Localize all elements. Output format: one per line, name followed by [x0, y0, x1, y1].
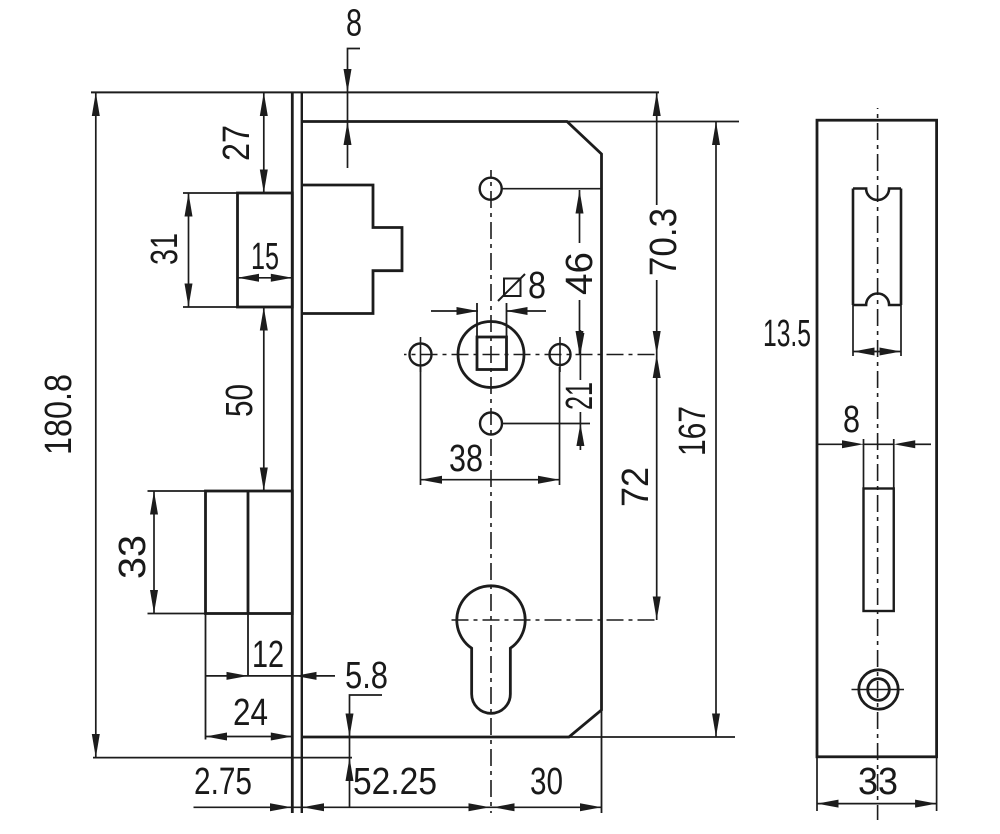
dim 50 line	[263, 307, 265, 491]
spindle hub circle	[458, 322, 524, 388]
dim 24 line	[206, 736, 293, 738]
31 top arrow	[185, 193, 193, 217]
dim 21 leaders	[579, 330, 581, 380]
dim 27 line	[263, 92, 265, 193]
24 left arrow	[206, 733, 228, 741]
svg-text:15: 15	[251, 236, 279, 278]
deadbolt left edge extension for 24 dim	[205, 614, 207, 740]
svg-text:5.8: 5.8	[345, 655, 388, 697]
2.75 right-pointing arrow	[270, 803, 292, 811]
latch cutout top edge with notch	[853, 189, 901, 201]
spindle square hole 8mm	[477, 337, 507, 370]
svg-text:31: 31	[144, 233, 186, 265]
dim 180.8 line	[95, 92, 97, 757]
70.3 top arrow	[653, 92, 661, 116]
left hole vertical tick	[420, 337, 422, 372]
33 extension lines	[816, 757, 818, 811]
lock body outline	[302, 122, 602, 738]
dim 8 leaders	[818, 443, 843, 445]
deadbolt internal line extension for 12 dim	[247, 614, 249, 677]
svg-text:52.25: 52.25	[353, 761, 437, 803]
dia8 square dim leaders	[431, 310, 478, 312]
30 left arrow at spindle axis	[493, 803, 515, 811]
right screw hole	[550, 344, 571, 365]
72 top arrow	[653, 355, 661, 379]
svg-text:21: 21	[559, 382, 601, 410]
top screw hole	[480, 178, 502, 200]
dim 167 line	[715, 122, 717, 738]
body right edge extension down to bottom dims	[601, 710, 603, 813]
167 top arrow	[712, 122, 720, 146]
deadbolt slot	[864, 489, 894, 612]
38 left arrow	[421, 476, 443, 484]
27 bottom arrow	[260, 170, 268, 194]
dim 33 line	[153, 491, 155, 614]
bottom dimension line 2.75 / 52.25 / 30	[194, 806, 602, 808]
faceplate front line (left, x=292.3)	[291, 92, 294, 813]
24 right arrow	[271, 733, 293, 741]
latch cutout bottom edge with bump	[853, 294, 901, 306]
8 top down arrow	[344, 69, 352, 92]
5.8 up arrow	[346, 758, 354, 781]
deadbolt top extension line for 33 dim	[148, 490, 206, 492]
svg-text:180.8: 180.8	[38, 374, 80, 455]
dim 70.3 line	[656, 92, 658, 205]
square symbol with slash for square 8	[498, 274, 525, 301]
dia8 left-pointing arrow	[506, 307, 528, 315]
13.5 dim line	[853, 351, 901, 353]
bottom screw hole	[480, 413, 502, 435]
15 right arrow	[271, 274, 293, 282]
screw hole horizontal center line	[852, 689, 905, 691]
167 bottom arrow	[712, 714, 720, 738]
8 right-pointing arrow	[842, 440, 864, 448]
svg-text:12: 12	[252, 634, 284, 676]
svg-text:50: 50	[219, 384, 261, 417]
21 down arrow	[576, 333, 584, 355]
deadbolt internal line	[247, 491, 250, 614]
svg-text:33: 33	[858, 761, 898, 803]
8 top up arrow (below body top line)	[344, 122, 352, 146]
50 top arrow	[260, 307, 268, 331]
52.25 right arrow at spindle axis	[469, 803, 491, 811]
12 left-pointing arrow	[295, 672, 317, 680]
21 up arrow	[576, 424, 584, 447]
svg-text:8: 8	[346, 3, 362, 45]
square left extension line	[476, 303, 478, 337]
180.8 top arrow	[92, 92, 100, 116]
latch head top extension line for 31 dim	[183, 192, 238, 194]
50 bottom arrow	[260, 468, 268, 492]
vertical center line through spindle axis (dash-dot)	[490, 170, 492, 813]
horizontal center line through spindle (dash-dot)	[404, 354, 659, 356]
svg-text:46: 46	[559, 252, 601, 295]
slot extension lines up	[863, 439, 865, 489]
dim 38 extension lines	[420, 367, 422, 485]
13.5 left arrow	[853, 348, 875, 356]
33 left arrow	[817, 800, 839, 808]
latch cutout right edge	[900, 189, 903, 306]
70.3 bottom arrow	[653, 331, 661, 355]
svg-text:8: 8	[843, 399, 860, 441]
dim 38 line	[421, 479, 560, 481]
latch cutout left edge	[852, 189, 855, 306]
faceplate bottom edge with extensions (y=757.6)	[93, 757, 352, 759]
180.8 bottom arrow	[92, 734, 100, 758]
13.5 right arrow	[880, 348, 902, 356]
dim 72 line	[656, 355, 658, 621]
svg-text:70.3: 70.3	[643, 208, 685, 276]
bottom hole extension line for 21	[502, 423, 590, 425]
33 bottom arrow	[150, 590, 158, 614]
46 top arrow	[576, 190, 584, 214]
faceplate back line (right, x=301.8)	[301, 92, 303, 813]
46 bottom arrow	[576, 331, 584, 355]
33 top arrow	[150, 491, 158, 515]
15 left arrow	[238, 274, 260, 282]
svg-text:13.5: 13.5	[763, 313, 811, 355]
faceplate front outline	[817, 120, 937, 757]
screw hole outer	[859, 670, 898, 709]
12 right-pointing arrow	[227, 672, 249, 680]
dim 15 line	[238, 277, 293, 279]
svg-text:30: 30	[530, 761, 563, 803]
72 bottom arrow	[653, 597, 661, 621]
screw hole inner	[868, 679, 890, 701]
latch bolt tail (follower inside body)	[302, 185, 402, 314]
38 right arrow	[538, 476, 560, 484]
horizontal center line through cylinder (dash-dot)	[449, 619, 659, 621]
dim 31 line	[188, 193, 190, 307]
deadbolt bottom extension line for 33 dim	[148, 613, 206, 615]
27 top arrow	[260, 92, 268, 116]
euro profile cylinder hole	[457, 586, 525, 714]
top extension line (faceplate top edge, y=92.4)	[91, 91, 659, 93]
svg-text:8: 8	[528, 265, 546, 307]
31 bottom arrow	[185, 284, 193, 308]
svg-text:24: 24	[233, 692, 268, 734]
svg-text:2.75: 2.75	[194, 761, 252, 803]
2.75 left-pointing arrow	[303, 803, 325, 811]
body top extension line to 167 dim	[567, 121, 739, 123]
latch bolt head (left of faceplate)	[238, 193, 293, 307]
svg-text:167: 167	[672, 406, 714, 456]
dim 5.8 bracket	[350, 695, 383, 737]
right hole vertical tick	[559, 337, 561, 372]
body bottom extension line to 167 dim	[569, 736, 735, 738]
svg-text:27: 27	[216, 125, 258, 161]
top hole extension line for 46	[502, 188, 602, 190]
square right extension line	[506, 303, 508, 337]
30 right arrow	[580, 803, 602, 811]
svg-text:72: 72	[615, 467, 657, 507]
faceplate vertical center line (dash-dot)	[877, 108, 879, 820]
33 dim line	[817, 803, 937, 805]
dim 12 leaders	[206, 675, 249, 677]
left screw hole	[410, 344, 432, 366]
svg-text:33: 33	[112, 535, 154, 579]
latch head bottom extension line for 31 dim	[183, 306, 238, 308]
deadbolt (left of faceplate)	[206, 491, 293, 614]
5.8 down arrow	[346, 714, 354, 738]
svg-text:38: 38	[449, 438, 483, 480]
33 right arrow	[915, 800, 937, 808]
8 left-pointing arrow	[894, 440, 916, 448]
dim 46 line	[579, 190, 581, 243]
dia8 right-pointing arrow	[457, 307, 479, 315]
13.5 extension lines	[852, 305, 854, 356]
dim 8 top: bracket and leaders	[348, 49, 361, 93]
